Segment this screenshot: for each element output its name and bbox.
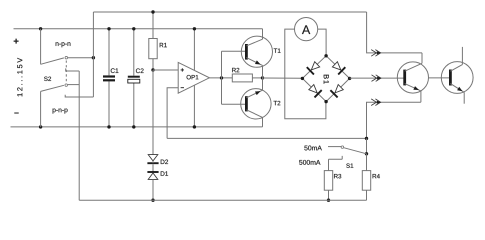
wire feedback (to current sense node)	[167, 137, 366, 139]
label R3	[334, 174, 341, 178]
switch S2 pole2 lever	[41, 85, 64, 91]
wire sense node down	[366, 138, 368, 153]
junction R3/bottom rail	[327, 199, 330, 202]
label R4	[373, 174, 380, 178]
diode D1	[152, 164, 154, 172]
junction C2/+rail	[132, 27, 135, 30]
switch S2 pole1 lever	[41, 58, 64, 64]
label 500mA	[299, 160, 320, 165]
label T2	[274, 101, 281, 105]
wire S2 pole2 common	[40, 91, 42, 127]
wire op-amp supply rails	[193, 29, 195, 127]
switch S1 lever	[344, 148, 367, 154]
junction S1 common/sense	[365, 152, 368, 155]
wire collector probe down to DUT	[421, 53, 423, 63]
switch S2 pole1 npn contact	[65, 56, 68, 59]
junction bridge top	[324, 54, 327, 57]
wire bottom rail	[79, 199, 366, 201]
wire +V rail	[14, 28, 263, 30]
label T1	[274, 49, 281, 53]
wire op-amp + input	[153, 69, 178, 71]
wire 50mA contact	[328, 146, 341, 148]
junction op-amp V-/-rail	[193, 125, 196, 128]
junction emitters/R2	[261, 76, 264, 79]
value label 12...15V	[17, 58, 22, 97]
wire S2 pole1 common	[40, 29, 42, 65]
wire op-amp - input to feedback	[167, 88, 178, 139]
junction R1/op-amp + input	[151, 68, 154, 71]
wire op-amp output	[209, 77, 232, 79]
resistor R4	[366, 154, 368, 171]
transistor DUT2	[441, 62, 473, 94]
wire crossover net vertical (pole1-pnp to pole2-npn to bottom rail)	[78, 71, 80, 200]
switch S1 label	[346, 163, 353, 167]
wire bridge to DUT base	[350, 77, 405, 79]
switch S2 pole2 npn contact	[65, 84, 68, 87]
probe arrow collector	[371, 50, 376, 57]
label OP1	[187, 75, 199, 79]
wire top net horizontal	[93, 11, 366, 13]
switch S2 label	[44, 77, 51, 81]
wire T2 base	[222, 103, 247, 105]
label n-p-n	[56, 42, 71, 47]
probe arrow emitter	[371, 99, 376, 106]
label D2	[161, 160, 168, 164]
junction R1/top net	[151, 10, 154, 13]
wire top net vertical from S2	[92, 12, 94, 97]
node - supply terminal label	[14, 88, 18, 137]
junction feedback/sense	[365, 137, 368, 140]
junction C2/-rail	[132, 125, 135, 128]
junction S2/top-net	[92, 56, 95, 59]
bridge B1 frame	[302, 56, 349, 102]
bridge B1 diode top-right	[332, 62, 340, 70]
junction C1/+rail	[107, 27, 110, 30]
resistor R1	[152, 12, 154, 39]
junction bridge left	[301, 77, 304, 80]
switch S1 contact	[341, 146, 344, 149]
wire emitter probe	[367, 102, 421, 138]
label p-n-p	[53, 109, 68, 114]
bridge B1 diode top-left	[311, 62, 319, 70]
resistor R2	[232, 74, 252, 82]
transistor DUT1	[397, 62, 428, 93]
capacitor C2	[133, 29, 135, 76]
wire base drive vertical	[221, 51, 223, 104]
transistor T2	[241, 89, 271, 119]
wire ammeter right branch	[318, 29, 326, 56]
wire emitter junction to bridge left	[263, 77, 303, 79]
wire + input node to D2	[152, 70, 154, 155]
wire DUT1 to DUT2 base	[429, 77, 451, 79]
wire T1 base	[222, 50, 247, 52]
label R1	[160, 43, 167, 47]
diode D2	[148, 155, 158, 161]
wire top net to collector probe	[367, 12, 422, 53]
op-amp OP1	[178, 62, 209, 93]
wire 500mA to R3	[328, 159, 330, 170]
wire D1 to bottom rail	[152, 179, 154, 200]
bridge B1 diode bottom-right	[335, 85, 343, 93]
junction bridge bottom	[324, 100, 327, 103]
wire 500mA contact	[329, 156, 343, 159]
wire -V rail	[11, 126, 263, 128]
junction op-amp V+/+rail	[193, 27, 196, 30]
label B1	[324, 75, 329, 84]
resistor R3	[328, 190, 330, 200]
transistor T1	[241, 36, 272, 67]
capacitor C1	[108, 29, 110, 76]
label 50mA	[304, 146, 321, 151]
label C1	[111, 68, 119, 73]
ammeter A	[295, 18, 318, 41]
node + supply terminal label	[14, 39, 19, 44]
junction output/base drive	[220, 76, 223, 79]
bridge B1 diode bottom-left	[309, 85, 317, 93]
probe arrow base	[372, 75, 377, 82]
wire S2 pole2 npn contact	[68, 84, 80, 86]
wire S2 pole1 npn contact to top net	[68, 57, 94, 59]
wire ammeter left branch	[285, 29, 326, 119]
label R2	[232, 68, 239, 72]
wire S2 pole2 pnp contact stub	[65, 95, 93, 97]
junction +rail/S2 pole1	[39, 27, 42, 30]
junction D1/bottom rail	[151, 199, 154, 202]
junction -rail/S2 pole2	[39, 125, 42, 128]
switch S2 mechanical link (dashed)	[65, 61, 67, 83]
wire S2 pole1 pnp contact stub	[66, 68, 80, 71]
label C2	[136, 68, 144, 73]
junction bridge right	[348, 77, 351, 80]
junction C1/-rail	[107, 125, 110, 128]
label D1	[161, 171, 168, 175]
